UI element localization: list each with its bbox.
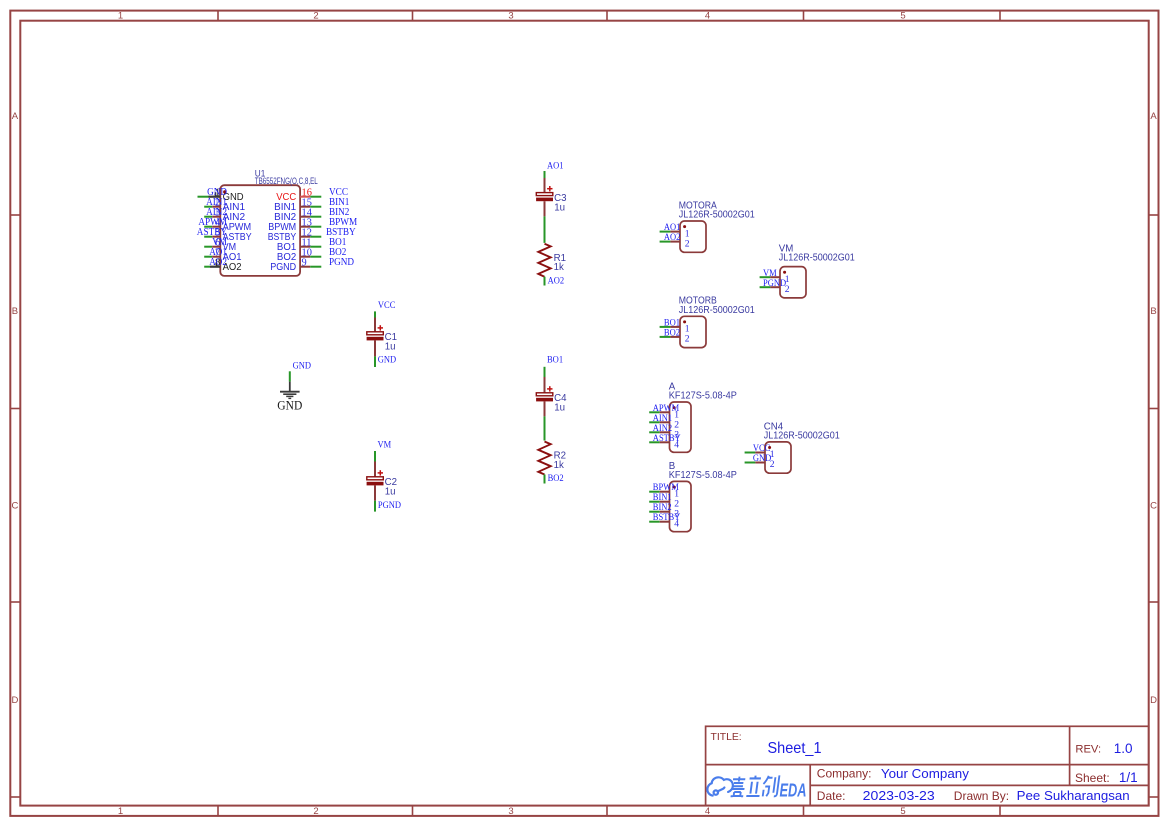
U1 pin 1 GND (left) [198, 187, 244, 203]
svg-text:1u: 1u [554, 202, 565, 213]
svg-text:BSTBY: BSTBY [653, 512, 681, 523]
svg-text:GND: GND [378, 355, 396, 366]
connector CN4 JL126R-50002G01 [764, 421, 840, 473]
rev field [1075, 741, 1132, 756]
svg-text:4: 4 [705, 806, 710, 817]
MOTORA pin 1 AO1 [660, 222, 690, 239]
svg-text:1: 1 [118, 11, 123, 22]
MOTORA pin 2 AO2 [660, 232, 690, 249]
connector MOTORA JL126R-50002G01 [679, 200, 755, 252]
svg-text:B: B [12, 306, 18, 317]
svg-text:1k: 1k [554, 262, 564, 273]
A pin 1 APWM [649, 403, 679, 421]
svg-text:AO2: AO2 [209, 257, 227, 268]
svg-text:Drawn By:: Drawn By: [954, 789, 1009, 803]
connector B KF127S-5.08-4P [669, 461, 737, 532]
svg-text:D: D [1150, 695, 1157, 706]
svg-text:Your Company: Your Company [881, 766, 970, 781]
svg-text:3: 3 [508, 11, 513, 22]
wire AO2 stub below R1 [544, 277, 546, 286]
svg-text:TB6552FNG(O,C,8,EL: TB6552FNG(O,C,8,EL [255, 176, 318, 187]
U1 pin 13 BPWM (right) [268, 217, 357, 233]
date / drawn-by row [817, 788, 1130, 803]
svg-text:ASTBY: ASTBY [653, 433, 681, 444]
A pin 2 AIN1 [649, 413, 679, 431]
svg-text:Company:: Company: [817, 767, 872, 781]
capacitor C3 [536, 171, 566, 243]
svg-text:2: 2 [685, 334, 690, 345]
svg-text:BO1: BO1 [547, 355, 563, 366]
B pin 4 BSTBY [649, 512, 680, 530]
B pin 1 BPWM [649, 482, 679, 500]
U1 pin 15 BIN1 (right) [274, 197, 349, 213]
U1 pin 3 AIN2 (left) [204, 207, 245, 223]
CN4 pin 2 GND [745, 453, 775, 470]
svg-text:B: B [1150, 306, 1156, 317]
svg-text:KF127S-5.08-4P: KF127S-5.08-4P [669, 391, 737, 402]
capacitor C2 [367, 451, 397, 512]
svg-text:JL126R-50002G01: JL126R-50002G01 [679, 210, 755, 221]
U1 pin 2 AIN1 (left) [204, 197, 245, 213]
svg-text:5: 5 [900, 806, 905, 817]
connector MOTORB JL126R-50002G01 [679, 296, 755, 348]
JLCEDA logo [707, 775, 806, 800]
svg-text:1.0: 1.0 [1114, 741, 1133, 756]
svg-text:2023-03-23: 2023-03-23 [863, 788, 935, 803]
svg-text:VCC: VCC [378, 300, 396, 311]
svg-text:AO2: AO2 [664, 232, 681, 243]
svg-text:JL126R-50002G01: JL126R-50002G01 [679, 305, 755, 316]
title block [706, 726, 1149, 805]
svg-text:GND: GND [277, 399, 302, 413]
svg-text:2: 2 [313, 11, 318, 22]
svg-text:Date:: Date: [817, 789, 846, 803]
A pin 3 AIN2 [649, 423, 679, 441]
svg-text:Sheet:: Sheet: [1075, 771, 1110, 785]
svg-text:JL126R-50002G01: JL126R-50002G01 [764, 431, 840, 442]
svg-text:PGND: PGND [270, 262, 296, 273]
svg-text:PGND: PGND [378, 500, 401, 511]
svg-text:Pee Sukharangsan: Pee Sukharangsan [1017, 788, 1130, 803]
svg-text:1k: 1k [554, 460, 564, 471]
U1 pin 16 VCC (right) [276, 187, 348, 203]
U1 pin 6 VM (left) [204, 237, 236, 253]
svg-text:AO1: AO1 [547, 161, 564, 172]
svg-text:GND: GND [293, 361, 311, 372]
svg-text:AO2: AO2 [548, 275, 565, 286]
svg-text:2: 2 [313, 806, 318, 817]
svg-text:REV:: REV: [1075, 744, 1101, 756]
svg-text:9: 9 [302, 258, 307, 269]
CN4 pin 1 VCC [745, 443, 775, 460]
U1 pin 8 AO2 (left) [204, 257, 241, 273]
svg-text:GND: GND [753, 453, 771, 464]
svg-text:KF127S-5.08-4P: KF127S-5.08-4P [669, 470, 737, 481]
resistor R1 [538, 244, 566, 277]
U1 pin 7 AO1 (left) [204, 247, 241, 263]
svg-text:C: C [1150, 501, 1157, 512]
capacitor C4 [536, 367, 567, 441]
svg-text:EDA: EDA [780, 780, 807, 800]
resistor R2 [538, 442, 566, 475]
connector A KF127S-5.08-4P [669, 381, 737, 452]
svg-text:1: 1 [118, 806, 123, 817]
svg-text:TITLE:: TITLE: [711, 732, 742, 743]
svg-text:5: 5 [900, 11, 905, 22]
svg-text:VM: VM [378, 439, 392, 450]
B pin 3 BIN2 [649, 502, 679, 520]
ground symbol GND [277, 371, 302, 412]
svg-text:C: C [11, 501, 18, 512]
svg-text:A: A [1150, 111, 1157, 122]
svg-text:1/1: 1/1 [1119, 770, 1138, 785]
wire BO2 stub below R2 [544, 475, 546, 484]
VM pin 2 PGND [760, 278, 790, 295]
svg-text:Sheet_1: Sheet_1 [768, 740, 822, 757]
U1 pin 5 ASTBY (left) [197, 227, 252, 243]
MOTORB pin 1 BO1 [660, 318, 690, 335]
U1 pin 10 BO2 (right) [277, 247, 346, 263]
svg-text:A: A [12, 111, 19, 122]
svg-text:1u: 1u [554, 403, 565, 414]
svg-text:BO2: BO2 [548, 473, 564, 484]
svg-text:1u: 1u [385, 487, 396, 498]
capacitor C1 [367, 311, 397, 367]
svg-text:PGND: PGND [329, 257, 354, 268]
svg-text:1u: 1u [385, 342, 396, 353]
IC U1 TB6552FNG body [220, 169, 318, 276]
svg-text:4: 4 [705, 11, 710, 22]
connector VM JL126R-50002G01 [779, 243, 855, 298]
U1 pin 11 BO1 (right) [277, 237, 346, 253]
B pin 2 BIN1 [649, 492, 679, 510]
svg-text:D: D [11, 695, 18, 706]
svg-text:BO2: BO2 [664, 328, 680, 339]
svg-text:2: 2 [685, 238, 690, 249]
U1 pin 9 PGND (right) [270, 257, 354, 273]
svg-text:3: 3 [508, 806, 513, 817]
company field [817, 766, 970, 781]
sheet field [1075, 770, 1138, 785]
U1 pin 4 APWM (left) [198, 217, 251, 233]
VM pin 1 VM [760, 268, 790, 285]
A pin 4 ASTBY [649, 433, 681, 451]
title text Sheet_1 [711, 732, 822, 757]
U1 pin 12 BSTBY (right) [268, 227, 357, 243]
MOTORB pin 2 BO2 [660, 328, 690, 345]
svg-text:JL126R-50002G01: JL126R-50002G01 [779, 253, 855, 264]
U1 pin 14 BIN2 (right) [274, 207, 349, 223]
svg-text:PGND: PGND [763, 278, 786, 289]
